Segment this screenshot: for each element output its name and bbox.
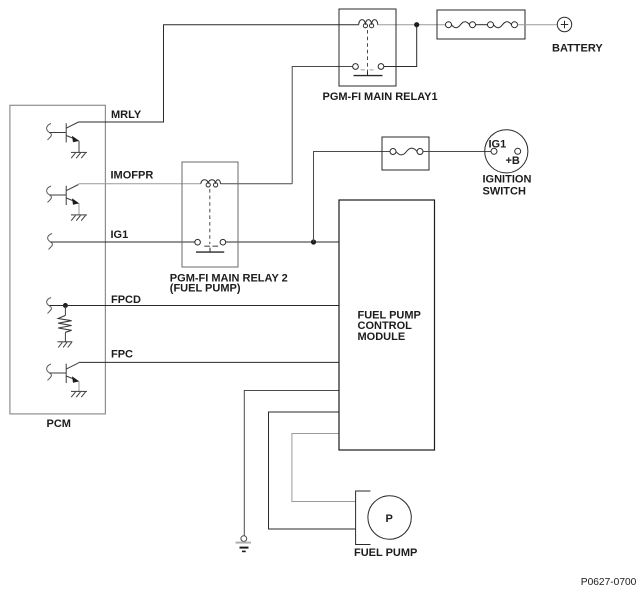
svg-text:BATTERY: BATTERY [552,43,603,55]
svg-text:PCM: PCM [47,418,71,430]
svg-text:SWITCH: SWITCH [483,185,526,197]
svg-text:FPCD: FPCD [111,294,141,306]
svg-text:+B: +B [506,155,520,167]
svg-text:(FUEL PUMP): (FUEL PUMP) [170,283,241,295]
svg-text:P0627-0700: P0627-0700 [581,577,637,588]
svg-text:PGM-FI MAIN RELAY1: PGM-FI MAIN RELAY1 [323,91,438,103]
svg-text:IMOFPR: IMOFPR [111,169,154,181]
svg-text:IG1: IG1 [111,229,129,241]
svg-text:MRLY: MRLY [111,109,142,121]
svg-text:P: P [386,513,393,525]
svg-text:IGNITION: IGNITION [483,173,532,185]
svg-text:MODULE: MODULE [358,331,406,343]
svg-text:FUEL PUMP: FUEL PUMP [354,547,417,559]
svg-text:IG1: IG1 [489,139,507,151]
svg-text:FPC: FPC [111,348,133,360]
